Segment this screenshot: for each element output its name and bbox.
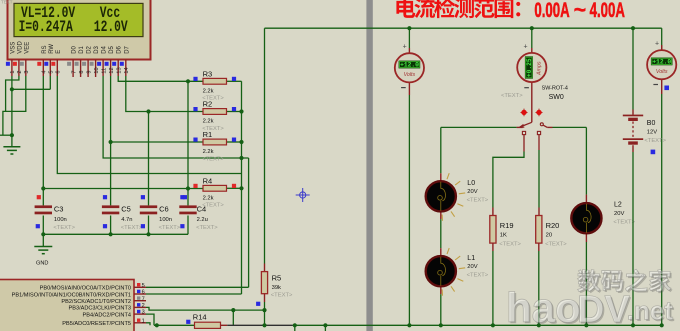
svg-text:Volts: Volts <box>656 69 668 75</box>
svg-text:2.2k: 2.2k <box>203 149 214 155</box>
svg-text:6: 6 <box>56 70 62 73</box>
svg-text:14: 14 <box>124 67 130 73</box>
svg-text:<TEXT>: <TEXT> <box>467 198 489 204</box>
svg-text:2: 2 <box>17 70 23 73</box>
svg-text:20V: 20V <box>614 211 624 217</box>
svg-text:4: 4 <box>42 70 48 73</box>
svg-text:DV: DV <box>577 289 630 331</box>
svg-text:2.2k: 2.2k <box>203 119 214 125</box>
svg-text:VEE: VEE <box>24 42 30 54</box>
svg-text:<TEXT>: <TEXT> <box>501 93 523 99</box>
svg-text:<TEXT>: <TEXT> <box>499 242 521 248</box>
svg-text:R2: R2 <box>203 100 213 109</box>
svg-text:hao: hao <box>506 284 581 331</box>
svg-text:L0: L0 <box>467 180 475 187</box>
svg-text:R3: R3 <box>203 69 213 78</box>
svg-text:2.2k: 2.2k <box>203 195 214 201</box>
svg-text:12.0V: 12.0V <box>94 20 129 37</box>
svg-text:D4: D4 <box>102 45 108 53</box>
svg-text:D0: D0 <box>72 45 78 53</box>
svg-text:<TEXT>: <TEXT> <box>121 225 143 231</box>
svg-text:2.2k: 2.2k <box>203 88 214 94</box>
svg-text:<TEXT>: <TEXT> <box>613 219 635 225</box>
svg-text:39k: 39k <box>272 285 281 291</box>
svg-text:~: ~ <box>574 0 586 22</box>
svg-text:C6: C6 <box>159 205 169 214</box>
svg-text:<TEXT>: <TEXT> <box>644 138 666 144</box>
svg-text:20V: 20V <box>467 264 477 270</box>
svg-text:20: 20 <box>546 233 552 239</box>
svg-text:D5: D5 <box>109 45 115 53</box>
svg-text:8: 8 <box>79 70 85 73</box>
svg-text:1: 1 <box>10 70 16 73</box>
svg-text:I=0.247A: I=0.247A <box>19 20 74 37</box>
svg-text:+: + <box>655 41 659 48</box>
svg-text:Amps: Amps <box>537 61 543 76</box>
svg-text:0.00A: 0.00A <box>534 0 569 22</box>
svg-text:+12.0: +12.0 <box>400 62 419 69</box>
svg-text:+: + <box>403 44 407 51</box>
svg-text:R5: R5 <box>272 274 282 283</box>
svg-text:SW0: SW0 <box>549 94 564 101</box>
svg-text:D7: D7 <box>124 45 130 53</box>
svg-text:C4: C4 <box>197 205 207 214</box>
svg-text:<TEXT>: <TEXT> <box>545 242 567 248</box>
svg-text:3: 3 <box>24 70 30 73</box>
svg-text:R4: R4 <box>203 176 213 185</box>
svg-text:+: + <box>523 43 527 50</box>
svg-text:<TEXT>: <TEXT> <box>159 225 181 231</box>
svg-text:RW: RW <box>49 44 55 54</box>
svg-text:<TEXT>: <TEXT> <box>196 225 218 231</box>
svg-text:<TEXT>: <TEXT> <box>271 293 293 299</box>
svg-text:R14: R14 <box>193 312 207 321</box>
svg-text:13: 13 <box>117 67 123 73</box>
svg-text:TEXT: TEXT <box>1 0 13 5</box>
svg-text:D2: D2 <box>87 45 93 53</box>
svg-text:SW-ROT-4: SW-ROT-4 <box>542 86 568 92</box>
svg-text:100n: 100n <box>54 217 67 223</box>
svg-text:PB1/MISO/INT0/AIN1/OC0B/INT0/R: PB1/MISO/INT0/AIN1/OC0B/INT0/RXD/PCINT1 <box>12 292 131 298</box>
svg-text:L2: L2 <box>614 201 622 208</box>
svg-text:PB0/MOSI/AIN0/OC0A/TXD/PCINT0: PB0/MOSI/AIN0/OC0A/TXD/PCINT0 <box>40 286 131 292</box>
svg-text:6: 6 <box>142 290 145 296</box>
svg-text:C5: C5 <box>121 205 131 214</box>
svg-text:R1: R1 <box>203 130 213 139</box>
svg-text:2.2u: 2.2u <box>197 217 208 223</box>
svg-text:12V: 12V <box>647 129 657 135</box>
svg-text:12: 12 <box>109 67 115 73</box>
svg-text:PB3/ADC3/CLKI/PCINT3: PB3/ADC3/CLKI/PCINT3 <box>69 306 132 312</box>
svg-text:<TEXT>: <TEXT> <box>467 272 489 278</box>
svg-text:4.7n: 4.7n <box>121 217 132 223</box>
svg-text:<TEXT>: <TEXT> <box>202 156 224 162</box>
svg-text:1: 1 <box>142 318 145 324</box>
svg-text:9: 9 <box>86 70 92 73</box>
svg-text:1K: 1K <box>500 233 507 239</box>
svg-text:7: 7 <box>71 70 77 73</box>
svg-text:PB5/ADC0/RESET/PCINT5: PB5/ADC0/RESET/PCINT5 <box>62 321 131 327</box>
svg-text:L1: L1 <box>467 255 475 262</box>
svg-text:7: 7 <box>142 296 145 302</box>
svg-text:VDD: VDD <box>17 40 23 53</box>
svg-text:10: 10 <box>94 67 100 73</box>
svg-text:PB2/SCK/ADC1/T0/PCINT2: PB2/SCK/ADC1/T0/PCINT2 <box>61 299 131 305</box>
svg-text:<TEXT>: <TEXT> <box>53 225 75 231</box>
svg-text:R20: R20 <box>546 221 560 230</box>
svg-text:20V: 20V <box>467 189 477 195</box>
svg-text:VSS: VSS <box>10 42 16 54</box>
svg-text:D6: D6 <box>117 45 123 53</box>
svg-text:4.00A: 4.00A <box>590 0 625 22</box>
svg-text:C3: C3 <box>54 205 64 214</box>
svg-text:+12.0: +12.0 <box>652 59 671 66</box>
svg-text:D3: D3 <box>94 45 100 53</box>
svg-text:+0.25: +0.25 <box>526 58 533 77</box>
svg-text:E: E <box>56 50 62 54</box>
svg-text:PB4/ADC2/PCINT4: PB4/ADC2/PCINT4 <box>83 312 132 318</box>
svg-text:5: 5 <box>49 70 55 73</box>
svg-text:.net: .net <box>627 296 674 326</box>
svg-text:B0: B0 <box>647 120 656 127</box>
svg-text:11: 11 <box>101 68 107 74</box>
svg-text:5: 5 <box>142 283 145 289</box>
svg-text:2: 2 <box>142 303 145 309</box>
svg-text:R19: R19 <box>500 221 514 230</box>
svg-text:D1: D1 <box>79 45 85 53</box>
svg-text:Volts: Volts <box>404 72 416 78</box>
svg-text:RS: RS <box>42 45 48 53</box>
svg-text:3: 3 <box>142 310 145 316</box>
svg-text:100n: 100n <box>159 217 172 223</box>
svg-text:GND: GND <box>36 261 48 267</box>
